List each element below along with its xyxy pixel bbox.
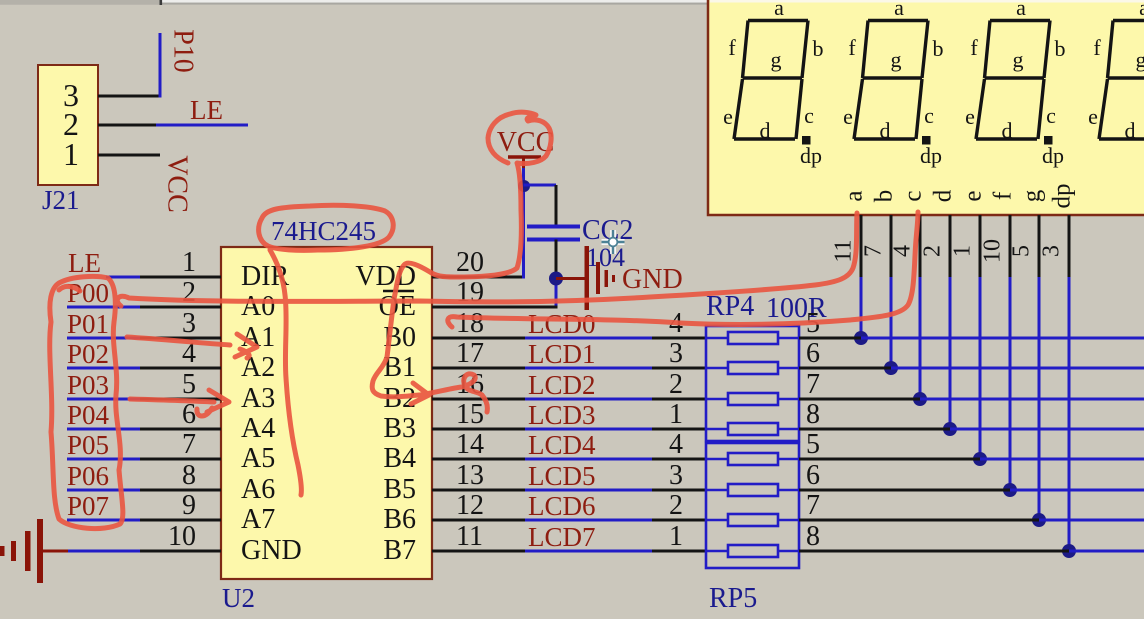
junction e bbox=[973, 452, 987, 466]
svg-text:J21: J21 bbox=[42, 185, 80, 215]
resistor pack RP4 body bbox=[706, 326, 799, 441]
wire LE bbox=[106, 276, 140, 279]
svg-text:a: a bbox=[774, 0, 784, 20]
wire segment to right edge bbox=[950, 428, 1144, 431]
svg-text:12: 12 bbox=[456, 490, 484, 521]
svg-text:B4: B4 bbox=[383, 443, 416, 474]
7-segment display module DS (part body) bbox=[708, 0, 1144, 215]
annotation arrow to A1 bbox=[127, 337, 230, 345]
svg-text:14: 14 bbox=[456, 429, 484, 460]
svg-text:20: 20 bbox=[456, 247, 484, 278]
svg-text:10: 10 bbox=[168, 521, 196, 552]
junction capacitor/GND bbox=[549, 272, 563, 286]
capacitor CC2 bbox=[527, 225, 580, 229]
junction c bbox=[913, 392, 927, 406]
wire segment vertical f bbox=[1009, 277, 1012, 490]
svg-text:g: g bbox=[771, 47, 782, 72]
svg-text:LCD2: LCD2 bbox=[528, 370, 596, 400]
wire to resistor pack pin 1 bbox=[652, 550, 706, 553]
wire LCD5 (blue segment) bbox=[525, 489, 652, 492]
svg-text:g: g bbox=[891, 47, 902, 72]
svg-text:5: 5 bbox=[806, 429, 820, 460]
7-segment digit 1 bbox=[734, 21, 808, 140]
wire segment vertical b bbox=[890, 277, 893, 368]
wire P03 bbox=[67, 398, 140, 401]
svg-text:P10: P10 bbox=[168, 29, 199, 73]
svg-text:2: 2 bbox=[669, 490, 683, 521]
wire LCD0 (blue segment) bbox=[525, 337, 652, 340]
svg-text:6: 6 bbox=[182, 399, 196, 430]
wire P10 vertical bbox=[159, 33, 162, 98]
resistor R7 in pack bbox=[706, 519, 728, 522]
wire J21 pin2 bbox=[98, 124, 156, 127]
svg-text:e: e bbox=[1088, 104, 1098, 129]
resistor R8 in pack bbox=[706, 550, 728, 553]
wire segment vertical dp bbox=[1068, 277, 1071, 551]
svg-text:g: g bbox=[1013, 47, 1024, 72]
svg-text:9: 9 bbox=[182, 490, 196, 521]
wire U2 pin 15 bbox=[432, 428, 525, 431]
wire P01 bbox=[67, 337, 140, 340]
svg-text:3: 3 bbox=[669, 460, 683, 491]
U2 pin 5 stub bbox=[140, 398, 221, 401]
svg-text:6: 6 bbox=[806, 460, 820, 491]
svg-text:8: 8 bbox=[182, 460, 196, 491]
svg-text:104: 104 bbox=[586, 243, 625, 272]
wire pack pin 5 to junction bbox=[799, 337, 861, 340]
svg-text:3: 3 bbox=[669, 338, 683, 369]
svg-text:d: d bbox=[930, 189, 957, 202]
svg-text:A7: A7 bbox=[241, 504, 275, 535]
wire segment vertical c bbox=[919, 277, 922, 399]
svg-text:P05: P05 bbox=[67, 430, 109, 460]
svg-text:LCD1: LCD1 bbox=[528, 339, 596, 369]
wire P07 bbox=[67, 519, 140, 522]
wire VCC riser vertical bbox=[522, 161, 525, 279]
svg-text:2: 2 bbox=[920, 245, 946, 257]
svg-text:11: 11 bbox=[456, 521, 483, 552]
wire LE from J21 bbox=[156, 124, 248, 127]
svg-text:LCD7: LCD7 bbox=[528, 522, 596, 552]
wire P06 bbox=[67, 489, 140, 492]
svg-text:5: 5 bbox=[182, 369, 196, 400]
svg-text:d: d bbox=[1002, 118, 1013, 143]
annotation loop around P00-P07 bbox=[50, 276, 123, 528]
power port VCC bbox=[508, 155, 541, 159]
svg-text:B7: B7 bbox=[383, 535, 416, 566]
display pin 4 stub (c) bbox=[919, 215, 922, 277]
svg-text:LE: LE bbox=[190, 95, 223, 125]
svg-text:18: 18 bbox=[456, 308, 484, 339]
7-segment digit 2 bbox=[854, 21, 928, 140]
resistor R2 in pack bbox=[706, 367, 728, 370]
resistor R6 in pack bbox=[706, 489, 728, 492]
svg-text:a: a bbox=[1139, 0, 1144, 20]
wire LCD1 (blue segment) bbox=[525, 367, 652, 370]
wire LCD6 (blue segment) bbox=[525, 519, 652, 522]
wire segment to right edge bbox=[920, 398, 1144, 401]
svg-text:c: c bbox=[1046, 103, 1056, 128]
svg-text:A6: A6 bbox=[241, 474, 275, 505]
svg-text:2: 2 bbox=[669, 369, 683, 400]
svg-text:6: 6 bbox=[806, 338, 820, 369]
svg-text:8: 8 bbox=[806, 399, 820, 430]
svg-text:b: b bbox=[813, 36, 824, 61]
display pin 1 stub (e) bbox=[979, 215, 982, 277]
wire segment to right edge bbox=[1010, 489, 1144, 492]
wire P02 bbox=[67, 367, 140, 370]
svg-text:LCD6: LCD6 bbox=[528, 491, 596, 521]
svg-text:P03: P03 bbox=[67, 370, 109, 400]
cursor crosshair bbox=[602, 230, 625, 254]
svg-text:e: e bbox=[960, 190, 987, 201]
connector J21 body bbox=[38, 65, 98, 185]
annotation arrowhead at B2 bbox=[411, 383, 429, 404]
U2 pin 4 stub bbox=[140, 367, 221, 370]
7-segment digit 4 bbox=[1099, 21, 1144, 140]
svg-text:LCD3: LCD3 bbox=[528, 400, 596, 430]
svg-text:e: e bbox=[843, 104, 853, 129]
svg-text:c: c bbox=[924, 103, 934, 128]
svg-text:15: 15 bbox=[456, 399, 484, 430]
wire segment to right edge bbox=[980, 458, 1144, 461]
svg-text:LE: LE bbox=[68, 248, 101, 278]
svg-text:g: g bbox=[1019, 189, 1046, 202]
svg-text:a: a bbox=[894, 0, 904, 20]
svg-text:3: 3 bbox=[1039, 245, 1065, 257]
U2 pin 7 stub bbox=[140, 458, 221, 461]
svg-text:P07: P07 bbox=[67, 491, 109, 521]
svg-text:8: 8 bbox=[806, 521, 820, 552]
svg-text:3: 3 bbox=[182, 308, 196, 339]
display pin 2 stub (d) bbox=[949, 215, 952, 277]
svg-text:d: d bbox=[760, 118, 771, 143]
wire junction down to OE row bbox=[555, 279, 558, 309]
svg-text:RP5: RP5 bbox=[709, 583, 757, 614]
svg-text:7: 7 bbox=[861, 245, 887, 257]
resistor R4 in pack bbox=[706, 428, 728, 431]
svg-text:f: f bbox=[1093, 35, 1101, 60]
svg-text:P06: P06 bbox=[67, 461, 109, 491]
wire from ground to U2 pin10 bbox=[43, 550, 68, 553]
wire U2 pin 18 bbox=[432, 337, 525, 340]
svg-text:1: 1 bbox=[182, 247, 196, 278]
wire J21 pin1 bbox=[98, 154, 160, 157]
wire LCD3 (blue segment) bbox=[525, 428, 652, 431]
svg-text:A5: A5 bbox=[241, 443, 275, 474]
wire to resistor pack pin 3 bbox=[652, 367, 706, 370]
svg-text:f: f bbox=[728, 35, 736, 60]
svg-text:d: d bbox=[880, 118, 891, 143]
ground symbol GND (near capacitor) bbox=[585, 246, 616, 310]
resistor R5 in pack bbox=[706, 458, 728, 461]
svg-text:B3: B3 bbox=[383, 413, 416, 444]
wire segment vertical e bbox=[979, 277, 982, 459]
wire pack pin 7 to junction bbox=[799, 398, 920, 401]
wire LCD7 (blue segment) bbox=[525, 550, 652, 553]
wire capacitor top branch bbox=[524, 184, 557, 187]
wire to resistor pack pin 1 bbox=[652, 428, 706, 431]
wire U2 pin 14 bbox=[432, 458, 525, 461]
wire to resistor pack pin 4 bbox=[652, 337, 706, 340]
ground symbol (power ground) bbox=[0, 519, 43, 583]
svg-text:dp: dp bbox=[920, 143, 942, 168]
svg-text:LCD4: LCD4 bbox=[528, 430, 596, 460]
junction dp bbox=[1062, 544, 1076, 558]
OE overline bbox=[383, 290, 414, 292]
wire to resistor pack pin 4 bbox=[652, 458, 706, 461]
svg-text:A3: A3 bbox=[241, 383, 275, 414]
svg-text:f: f bbox=[990, 191, 1017, 200]
svg-text:b: b bbox=[871, 190, 898, 203]
wire U2 pin20 to VCC riser bbox=[432, 276, 525, 279]
svg-text:OE: OE bbox=[379, 291, 416, 322]
svg-text:B6: B6 bbox=[383, 504, 416, 535]
wire U2 pin 12 bbox=[432, 519, 525, 522]
svg-text:e: e bbox=[723, 104, 733, 129]
svg-text:a: a bbox=[841, 190, 868, 201]
wire to resistor pack pin 2 bbox=[652, 519, 706, 522]
U2 pin 1 stub bbox=[140, 276, 221, 279]
wire LCD4 (blue segment) bbox=[525, 458, 652, 461]
7-segment digit 3 bbox=[976, 21, 1050, 140]
annotation line through 18 rising to display wire c bbox=[448, 212, 918, 327]
svg-text:P01: P01 bbox=[67, 309, 109, 339]
display pin 7 stub (b) bbox=[890, 215, 893, 277]
wire J21 pin3 bbox=[98, 95, 160, 98]
junction g bbox=[1032, 513, 1046, 527]
svg-text:LCD0: LCD0 bbox=[528, 309, 596, 339]
svg-text:f: f bbox=[970, 35, 978, 60]
resistor R3 in pack bbox=[706, 398, 728, 401]
svg-text:VCC: VCC bbox=[162, 155, 193, 213]
wire pack pin 8 to junction bbox=[799, 428, 950, 431]
wire capacitor bottom to junction bbox=[555, 240, 558, 279]
svg-text:74HC245: 74HC245 bbox=[271, 216, 376, 246]
wire to resistor pack pin 2 bbox=[652, 398, 706, 401]
U2 pin 2 stub bbox=[140, 306, 221, 309]
wire segment to right edge bbox=[861, 337, 1144, 340]
wire segment to right edge bbox=[1069, 550, 1144, 553]
svg-text:dp: dp bbox=[1049, 184, 1076, 209]
svg-text:b: b bbox=[1055, 36, 1066, 61]
U2 pin 9 stub bbox=[140, 519, 221, 522]
wire segment to right edge bbox=[891, 367, 1144, 370]
svg-text:A4: A4 bbox=[241, 413, 275, 444]
wire pack pin 6 to junction bbox=[799, 367, 891, 370]
annotation circle around VCC with trail to VDD/B2 bbox=[372, 112, 551, 397]
wire segment to right edge bbox=[1039, 519, 1144, 522]
annotation arrow to A3 bbox=[130, 399, 214, 402]
wire P05 bbox=[67, 458, 140, 461]
svg-text:dp: dp bbox=[1042, 143, 1064, 168]
wire to GND symbol bbox=[556, 277, 586, 280]
svg-text:GND: GND bbox=[241, 535, 302, 566]
svg-text:P00: P00 bbox=[67, 278, 109, 308]
svg-text:10: 10 bbox=[980, 239, 1006, 263]
wire U2 pin19 (OE) bbox=[432, 306, 558, 309]
svg-text:P04: P04 bbox=[67, 400, 110, 430]
wire to resistor pack pin 3 bbox=[652, 489, 706, 492]
svg-text:4: 4 bbox=[890, 245, 916, 257]
svg-text:b: b bbox=[933, 36, 944, 61]
display pin 3 stub (dp) bbox=[1068, 215, 1071, 277]
junction d bbox=[943, 422, 957, 436]
wire pack pin 5 to junction bbox=[799, 458, 980, 461]
wire U2 pin 11 bbox=[432, 550, 525, 553]
wire P00 bbox=[67, 306, 140, 309]
wire segment vertical a bbox=[860, 277, 863, 338]
svg-text:7: 7 bbox=[806, 369, 820, 400]
svg-text:1: 1 bbox=[669, 521, 683, 552]
svg-text:17: 17 bbox=[456, 338, 484, 369]
svg-text:g: g bbox=[1136, 47, 1144, 72]
junction a bbox=[854, 331, 868, 345]
svg-text:5: 5 bbox=[1009, 245, 1035, 257]
wire pack pin 6 to junction bbox=[799, 489, 1010, 492]
svg-text:1: 1 bbox=[63, 136, 79, 172]
wire pack pin 7 to junction bbox=[799, 519, 1039, 522]
svg-text:d: d bbox=[1125, 118, 1136, 143]
svg-text:LCD5: LCD5 bbox=[528, 461, 596, 491]
U2 pin 3 stub bbox=[140, 337, 221, 340]
op-amp/buffer U2 74HC245 body bbox=[221, 247, 432, 579]
annotation vertical wavy line inside U2 bbox=[270, 250, 301, 495]
svg-text:B5: B5 bbox=[383, 474, 416, 505]
svg-text:7: 7 bbox=[182, 429, 196, 460]
svg-text:a: a bbox=[1016, 0, 1026, 20]
wire segment vertical g bbox=[1038, 277, 1041, 520]
resistor pack RP5 body bbox=[706, 443, 799, 568]
svg-text:dp: dp bbox=[800, 143, 822, 168]
U2 pin 6 stub bbox=[140, 428, 221, 431]
svg-text:7: 7 bbox=[806, 490, 820, 521]
svg-text:A0: A0 bbox=[241, 291, 275, 322]
svg-text:13: 13 bbox=[456, 460, 484, 491]
resistor R1 in pack bbox=[706, 337, 728, 340]
svg-text:GND: GND bbox=[622, 264, 683, 295]
display pin 11 stub (a) bbox=[860, 215, 863, 277]
svg-text:1: 1 bbox=[950, 245, 976, 257]
junction f bbox=[1003, 483, 1017, 497]
wire segment vertical d bbox=[949, 277, 952, 429]
display pin 5 stub (g) bbox=[1038, 215, 1041, 277]
svg-text:2: 2 bbox=[182, 277, 196, 308]
wire U2 pin 16 bbox=[432, 398, 525, 401]
annotation oval around 74HC245 bbox=[259, 205, 394, 250]
wire pack pin 8 to junction bbox=[799, 550, 1069, 553]
wire U2 pin 13 bbox=[432, 489, 525, 492]
U2 pin 8 stub bbox=[140, 489, 221, 492]
top window edge strip bbox=[0, 0, 1144, 3]
junction b bbox=[884, 361, 898, 375]
svg-text:P02: P02 bbox=[67, 339, 109, 369]
svg-text:U2: U2 bbox=[222, 583, 255, 613]
svg-text:1: 1 bbox=[669, 399, 683, 430]
svg-text:4: 4 bbox=[669, 429, 683, 460]
junction on VCC riser bbox=[518, 180, 530, 192]
svg-text:f: f bbox=[848, 35, 856, 60]
svg-text:c: c bbox=[900, 190, 927, 201]
svg-text:e: e bbox=[965, 104, 975, 129]
svg-text:c: c bbox=[804, 103, 814, 128]
wire P04 bbox=[67, 428, 140, 431]
wire LCD2 (blue segment) bbox=[525, 398, 652, 401]
annotation long line from P00 rising to display wire a bbox=[117, 213, 857, 306]
display pin 10 stub (f) bbox=[1009, 215, 1012, 277]
wire U2 pin 17 bbox=[432, 367, 525, 370]
